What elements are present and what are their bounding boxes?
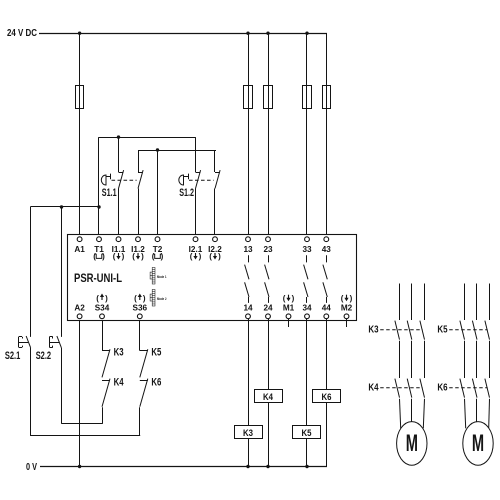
relay output contact 33-34 xyxy=(304,255,308,303)
svg-text:K3: K3 xyxy=(368,325,379,336)
svg-text:44: 44 xyxy=(322,303,332,312)
wire coil K3 to 0V xyxy=(248,439,250,467)
svg-text:): ) xyxy=(161,252,164,261)
DIP switch icon Mode 1 xyxy=(150,268,166,285)
svg-text:(: ( xyxy=(190,252,193,261)
terminal 13 (pin circle) xyxy=(246,237,251,242)
junction dot row2/T2 xyxy=(156,148,159,151)
terminal 34 (pin circle) xyxy=(305,314,310,319)
terminal 14 (pin circle) xyxy=(246,314,251,319)
contactor coil K4 xyxy=(255,390,283,403)
terminal I1.2 (pin circle) xyxy=(136,237,141,242)
wire A1 branch (24V rail to terminal A1) xyxy=(79,33,81,237)
E-stop S1.1 pole 1 contact (I1.1) xyxy=(119,137,124,237)
terminal M1 (pin circle) xyxy=(286,314,291,319)
svg-text:S36: S36 xyxy=(133,303,148,312)
symbol (down arrow) under I1.2 xyxy=(132,252,144,261)
terminal S36 (pin circle) xyxy=(137,314,142,319)
svg-text:PSR-UNI-L: PSR-UNI-L xyxy=(74,271,122,285)
junction dot K5/0V xyxy=(305,465,308,468)
junction dot 24V/A1 xyxy=(78,32,81,35)
svg-text:M: M xyxy=(406,430,418,457)
symbol (down arrow) under I2.1 xyxy=(190,252,202,261)
terminal 24 (pin circle) xyxy=(266,314,271,319)
symbol (up arrow) above S36 xyxy=(134,294,146,303)
svg-text:43: 43 xyxy=(322,245,332,254)
svg-text:(: ( xyxy=(283,294,286,303)
symbol (test pulse) under T2 xyxy=(152,252,164,261)
wire K4 chain bottom xyxy=(102,407,104,423)
terminal S34 (pin circle) xyxy=(100,314,105,319)
svg-text:): ) xyxy=(141,252,144,261)
symbol (test pulse) under T1 xyxy=(93,252,105,261)
wire 23 branch (24V rail to terminal 23) xyxy=(268,33,270,237)
net 0 V return rail xyxy=(40,466,327,468)
terminal T2 (pin circle) xyxy=(155,237,160,242)
fuse F23 (23 supply) xyxy=(264,86,273,109)
symbol (down arrow) under I2.2 xyxy=(209,252,221,261)
svg-text:Mode 2: Mode 2 xyxy=(157,297,167,301)
svg-text:K3: K3 xyxy=(243,428,253,439)
wire coil K6 to 0V xyxy=(326,403,328,467)
wire K6 chain bottom xyxy=(139,407,141,436)
wire coil K5 to 0V xyxy=(306,439,308,467)
junction dot row1/S1.1 pole1 xyxy=(117,135,120,138)
svg-text:): ) xyxy=(218,252,221,261)
junction dot 24V/33 xyxy=(305,32,308,35)
terminal I2.1 (pin circle) xyxy=(193,237,198,242)
wire feedback row (to S2.1/S2.2) xyxy=(30,206,100,208)
svg-text:K4: K4 xyxy=(114,376,124,388)
symbol (down arrow) above M1 xyxy=(283,294,295,303)
svg-text:23: 23 xyxy=(263,245,273,254)
motor M2 (circle M) xyxy=(463,422,493,466)
fuse F43 (43 supply) xyxy=(323,86,331,109)
svg-text:(: ( xyxy=(134,294,137,303)
svg-text:K5: K5 xyxy=(302,428,313,439)
start button S2.2 (NO contact + actuator) xyxy=(49,207,61,423)
svg-text:): ) xyxy=(102,252,105,261)
svg-text:S34: S34 xyxy=(95,303,110,312)
contactor coil K3 xyxy=(235,426,263,439)
junction dot A2/0V xyxy=(78,465,81,468)
DIP switch icon Mode 2 xyxy=(150,290,166,307)
relay output contact 43-44 xyxy=(323,255,327,303)
motor 2 phase wire L3 with K5/K6 main contacts xyxy=(485,284,490,429)
motor 2 phase wire L2 with K5/K6 main contacts xyxy=(472,284,477,422)
wire 13 branch (24V rail to terminal 13) xyxy=(248,33,250,237)
wire coil K4 to 0V xyxy=(268,403,270,467)
symbol (down arrow) above M2 xyxy=(341,294,353,303)
terminal T1 (pin circle) xyxy=(97,237,102,242)
terminal M2 (pin circle) xyxy=(344,314,349,319)
motor 2 phase wire L1 with K5/K6 main contacts xyxy=(460,284,466,429)
wire A2 to 0V rail xyxy=(79,318,81,466)
wire 24 to contactor coil K4 xyxy=(268,318,270,389)
svg-text:K6: K6 xyxy=(322,392,332,403)
svg-text:K5: K5 xyxy=(437,325,448,336)
svg-text:): ) xyxy=(350,294,353,303)
motor M1 (circle M) xyxy=(397,422,427,466)
svg-text:M2: M2 xyxy=(341,303,353,312)
symbol (up arrow) above S34 xyxy=(96,294,108,303)
svg-text:24: 24 xyxy=(263,303,273,312)
terminal 33 (pin circle) xyxy=(305,237,310,242)
svg-text:33: 33 xyxy=(302,245,312,254)
wire M1 stub xyxy=(288,318,290,327)
svg-text:K3: K3 xyxy=(114,346,124,358)
terminal A1 (pin circle) xyxy=(77,237,82,242)
svg-text:S2.2: S2.2 xyxy=(36,350,51,362)
svg-text:): ) xyxy=(143,294,146,303)
svg-text:K4: K4 xyxy=(368,383,379,394)
wire 14 to contactor coil K3 xyxy=(248,318,250,425)
junction dot feedback/S2.2 branch xyxy=(60,205,63,208)
svg-text:(: ( xyxy=(341,294,344,303)
svg-text:M1: M1 xyxy=(283,303,295,312)
svg-text:(: ( xyxy=(209,252,212,261)
wire test-pulse row 1 (T1 to E-stop poles 1) xyxy=(99,137,196,139)
svg-text:K4: K4 xyxy=(263,392,274,403)
svg-text:Mode 1: Mode 1 xyxy=(157,275,167,279)
mechanical link K4 (dashed) xyxy=(380,387,422,389)
wire S2.1 bottom to K6 chain xyxy=(30,435,140,437)
svg-text:(: ( xyxy=(96,294,99,303)
E-stop S1.1 pole 2 contact (I1.2) xyxy=(138,150,143,237)
wire 44 to contactor coil K6 xyxy=(326,318,328,389)
mechanical link K3 (dashed) xyxy=(380,329,422,331)
svg-text:): ) xyxy=(199,252,202,261)
svg-text:A1: A1 xyxy=(74,245,85,254)
mechanical link K5 (dashed) xyxy=(449,329,487,331)
svg-text:34: 34 xyxy=(302,303,312,312)
relay output contact 13-14 xyxy=(245,255,249,303)
svg-text:(: ( xyxy=(113,252,116,261)
terminal 23 (pin circle) xyxy=(266,237,271,242)
terminal 43 (pin circle) xyxy=(324,237,329,242)
svg-text:M: M xyxy=(472,430,484,457)
feedback chain below S36: aux contact K5 + aux contact K6 xyxy=(140,318,148,406)
contactor coil K6 xyxy=(313,390,341,403)
terminal A2 (pin circle) xyxy=(77,314,82,319)
motor 1 phase wire L3 with K3/K4 main contacts xyxy=(420,284,425,429)
motor 1 phase wire L2 with K3/K4 main contacts xyxy=(407,284,412,422)
net 24 V DC supply rail xyxy=(39,33,327,35)
junction dot K3/0V xyxy=(246,465,249,468)
wire M2 stub xyxy=(346,318,348,327)
svg-text:(: ( xyxy=(132,252,135,261)
safety relay U1 body outline xyxy=(68,235,357,321)
wire 43 branch (24V rail to terminal 43) xyxy=(326,33,328,237)
junction dot K4/0V xyxy=(266,465,269,468)
svg-text:): ) xyxy=(122,252,125,261)
svg-text:0 V: 0 V xyxy=(26,462,37,473)
mechanical link S1.2 (dashed) xyxy=(189,179,214,181)
motor 1 phase wire L1 with K3/K4 main contacts xyxy=(395,284,401,429)
wire T2 vertical (test pulse 2) xyxy=(157,150,159,237)
terminal I2.2 (pin circle) xyxy=(213,237,218,242)
E-stop S1.2 actuator (mushroom head) xyxy=(179,174,189,185)
junction dot T1/feedback wire xyxy=(97,205,100,208)
terminal I1.1 (pin circle) xyxy=(116,237,121,242)
svg-text:): ) xyxy=(105,294,108,303)
wire 34 to contactor coil K5 xyxy=(306,318,308,425)
E-stop S1.2 pole 2 contact (I2.2) xyxy=(215,150,221,237)
symbol (down arrow) under I1.1 xyxy=(113,252,125,261)
svg-text:A2: A2 xyxy=(74,303,85,312)
junction dot 24V/13 xyxy=(246,32,249,35)
mechanical link S1.1 (dashed) xyxy=(112,179,137,181)
feedback chain below S34: aux contact K3 + aux contact K4 xyxy=(102,318,110,406)
svg-text:14: 14 xyxy=(243,303,253,312)
wire T1 vertical (test pulse 1) xyxy=(98,137,100,237)
svg-text:S1.1: S1.1 xyxy=(102,187,117,199)
start button S2.1 (NO contact + actuator) xyxy=(19,207,31,436)
svg-text:24 V DC: 24 V DC xyxy=(7,28,37,39)
contactor coil K5 xyxy=(293,426,321,439)
fuse F1 (A1 supply) xyxy=(76,86,84,109)
wire 33 branch (24V rail to terminal 33) xyxy=(306,33,308,237)
svg-text:K6: K6 xyxy=(151,376,161,388)
mechanical link K6 (dashed) xyxy=(449,387,487,389)
fuse F33 (33 supply) xyxy=(303,86,312,109)
svg-text:K6: K6 xyxy=(437,383,448,394)
E-stop S1.1 actuator (mushroom head) xyxy=(101,174,110,185)
svg-text:13: 13 xyxy=(243,245,253,254)
terminal 44 (pin circle) xyxy=(324,314,329,319)
wire test-pulse row 2 (T2 to E-stop poles 2) xyxy=(138,150,216,152)
relay output contact 23-24 xyxy=(265,255,269,303)
svg-text:S2.1: S2.1 xyxy=(5,350,20,362)
junction dot 24V/23 xyxy=(266,32,269,35)
fuse F13 (13 supply) xyxy=(244,86,253,109)
svg-text:S1.2: S1.2 xyxy=(179,187,194,199)
svg-text:K5: K5 xyxy=(151,346,161,358)
E-stop S1.2 pole 1 contact (I2.1) xyxy=(196,137,201,237)
svg-text:): ) xyxy=(292,294,295,303)
wire S2.2 bottom to K4 chain xyxy=(61,423,103,425)
